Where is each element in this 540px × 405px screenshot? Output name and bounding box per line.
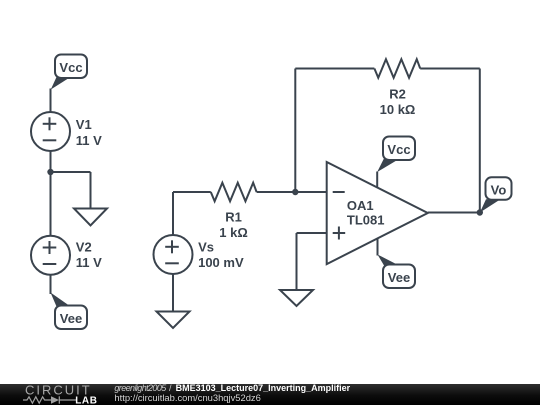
svg-text:Vee: Vee bbox=[388, 270, 410, 285]
svg-text:11 V: 11 V bbox=[76, 255, 102, 270]
svg-text:1 kΩ: 1 kΩ bbox=[219, 225, 248, 240]
svg-text:11 V: 11 V bbox=[76, 133, 102, 148]
svg-text:Vee: Vee bbox=[60, 311, 82, 326]
svg-text:http://circuitlab.com/cnu3hqjv: http://circuitlab.com/cnu3hqjv52dz6 bbox=[114, 392, 260, 403]
svg-text:10 kΩ: 10 kΩ bbox=[380, 102, 416, 117]
svg-text:Vcc: Vcc bbox=[59, 60, 82, 75]
svg-text:V2: V2 bbox=[76, 240, 92, 255]
svg-text:Vo: Vo bbox=[491, 182, 507, 197]
svg-text:Vs: Vs bbox=[198, 239, 214, 254]
svg-text:R1: R1 bbox=[225, 210, 242, 225]
svg-text:OA1: OA1 bbox=[347, 198, 374, 213]
svg-text:TL081: TL081 bbox=[347, 212, 385, 227]
svg-text:Vcc: Vcc bbox=[387, 142, 410, 157]
svg-text:100 mV: 100 mV bbox=[198, 255, 244, 270]
svg-text:R2: R2 bbox=[389, 87, 406, 102]
svg-text:V1: V1 bbox=[76, 117, 92, 132]
svg-text:LAB: LAB bbox=[75, 396, 97, 405]
